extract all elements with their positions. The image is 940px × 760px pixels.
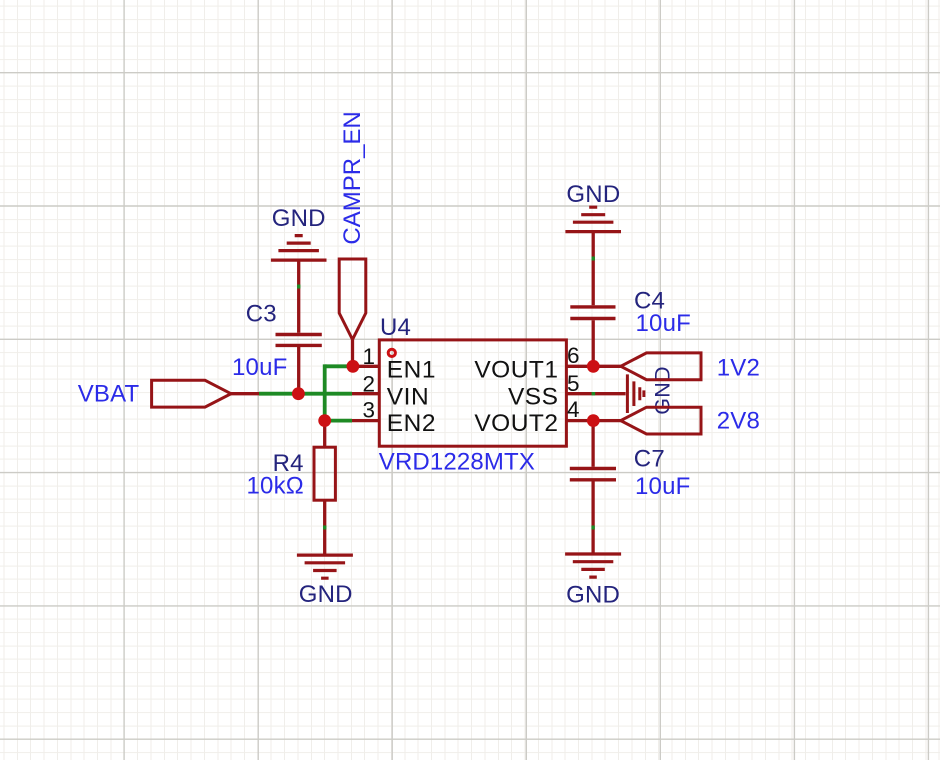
- svg-text:10uF: 10uF: [635, 473, 691, 500]
- svg-text:10kΩ: 10kΩ: [247, 473, 304, 500]
- svg-text:VBAT: VBAT: [78, 381, 140, 408]
- svg-text:VIN: VIN: [387, 383, 429, 410]
- svg-text:GND: GND: [566, 181, 620, 208]
- svg-text:10uF: 10uF: [636, 310, 692, 337]
- svg-text:5: 5: [567, 371, 580, 396]
- svg-text:VSS: VSS: [508, 383, 559, 410]
- svg-text:VOUT2: VOUT2: [474, 410, 558, 437]
- svg-text:GND: GND: [566, 581, 620, 608]
- svg-text:EN2: EN2: [387, 410, 436, 437]
- svg-text:U4: U4: [380, 314, 411, 341]
- svg-text:CAMPR_EN: CAMPR_EN: [339, 111, 366, 244]
- svg-text:VOUT1: VOUT1: [474, 357, 558, 384]
- svg-text:EN1: EN1: [387, 357, 436, 384]
- svg-text:2V8: 2V8: [717, 407, 760, 434]
- svg-text:1V2: 1V2: [717, 355, 760, 382]
- svg-text:4: 4: [567, 397, 580, 422]
- svg-text:1: 1: [362, 344, 375, 369]
- svg-text:VRD1228MTX: VRD1228MTX: [379, 449, 535, 476]
- svg-text:2: 2: [362, 371, 375, 396]
- svg-text:6: 6: [567, 343, 580, 368]
- svg-text:GND: GND: [299, 581, 353, 608]
- svg-text:GND: GND: [272, 205, 326, 232]
- svg-text:C7: C7: [634, 445, 665, 472]
- svg-text:3: 3: [362, 397, 375, 422]
- svg-text:C3: C3: [246, 300, 277, 327]
- svg-text:10uF: 10uF: [232, 354, 288, 381]
